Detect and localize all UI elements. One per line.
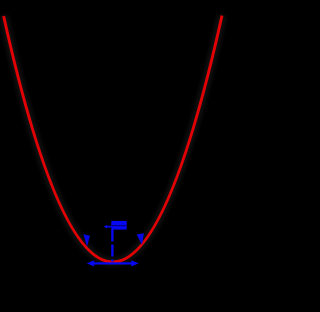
- left curve arrowhead: [83, 234, 90, 247]
- right curve arrowhead: [137, 233, 144, 245]
- vertical dashed line: [111, 230, 113, 262]
- horizontal double arrow: [87, 260, 139, 266]
- parabola curve: [4, 16, 222, 262]
- artifact glow under curve: [4, 16, 222, 262]
- label blob: [104, 221, 127, 230]
